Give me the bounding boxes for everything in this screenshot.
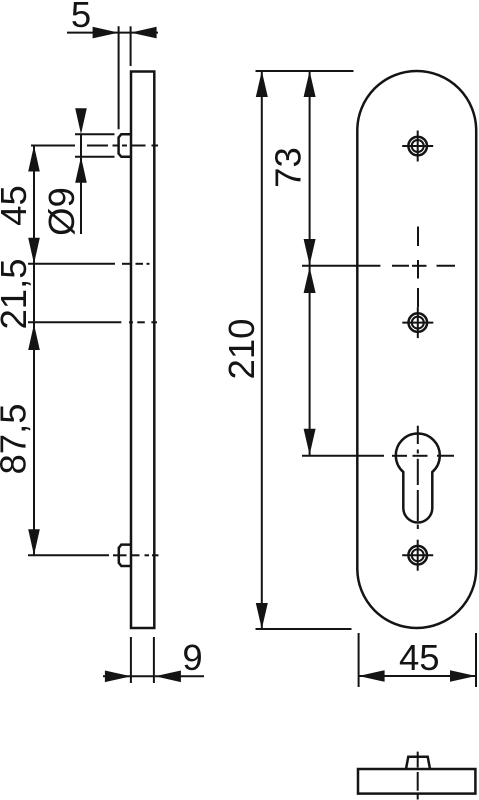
bottom 9 dimension line left part <box>103 675 154 677</box>
bottom 9 left extension line <box>130 637 132 683</box>
dimension 45 bottom: line <box>359 675 476 677</box>
svg-text:Ø9: Ø9 <box>41 187 82 236</box>
center line handle axis side view <box>28 263 150 265</box>
svg-text:9: 9 <box>182 637 202 678</box>
side view top screw boss <box>119 134 131 157</box>
dimension O9: top extension line <box>75 133 115 135</box>
dimension O9: tail line <box>80 157 82 234</box>
dimension 5: right arrow <box>131 27 157 39</box>
bottom view center line dashes <box>417 752 419 800</box>
svg-text:5: 5 <box>71 0 91 35</box>
dimension O9: bottom arrow <box>75 157 87 183</box>
center line middle screw side view <box>28 321 157 323</box>
left chain dimension line <box>33 146 35 556</box>
dimension 45: right arrow <box>450 670 476 682</box>
dimension 45: left arrow <box>359 670 385 682</box>
dimension 210: top arrow <box>256 71 268 97</box>
bottom screw hole <box>402 540 433 571</box>
dimension O9: top arrow <box>75 108 87 134</box>
side view plate body <box>131 72 154 629</box>
dimension 210: line <box>261 71 263 629</box>
chain arrow down at 555.3 <box>28 529 40 555</box>
svg-text:45: 45 <box>399 637 440 678</box>
svg-text:21,5: 21,5 <box>0 258 34 329</box>
dimension 72: bottom arrow <box>304 429 316 455</box>
dimension 72 (unlabeled): line <box>309 266 311 456</box>
middle screw hole <box>402 307 433 338</box>
dimension O9: line between extension lines <box>80 134 82 157</box>
dimension 73: top arrow <box>304 71 316 97</box>
center line bottom boss (87,5 reference) <box>28 554 159 556</box>
handle axis vertical dashes <box>417 227 419 308</box>
cylinder keyhole outline <box>396 433 440 522</box>
dimension 73: line <box>309 71 311 266</box>
handle axis horizontal dashes <box>392 265 455 267</box>
chain arrow up at 145.5 <box>28 146 40 172</box>
front view plate outline <box>357 71 476 628</box>
dimension 5: line <box>67 32 158 34</box>
dimension 72: top arrow <box>304 267 316 293</box>
top extension line front view <box>256 70 354 72</box>
bottom extension line front view <box>256 628 352 630</box>
cylinder axis horizontal solid part <box>302 455 384 457</box>
svg-text:73: 73 <box>268 147 309 188</box>
bottom 9 right arrow <box>155 671 181 683</box>
top screw hole <box>402 131 433 162</box>
dimension 5: left extension line <box>118 26 120 129</box>
dimension 73: bottom arrow <box>304 239 316 265</box>
center line top boss (45 dim reference) <box>31 145 158 147</box>
dimension 45: left extension line <box>358 633 360 687</box>
bottom 9 dimension line right tail <box>155 675 204 677</box>
bottom 9 right extension line <box>153 637 155 683</box>
chain arrow up at 322.3 <box>28 324 40 350</box>
dimension 45: right extension line <box>475 633 477 687</box>
svg-text:87,5: 87,5 <box>0 403 34 474</box>
cylinder axis vertical dashes <box>417 426 419 529</box>
dimension 210: bottom arrow <box>256 603 268 629</box>
handle axis horizontal line solid part <box>302 265 380 267</box>
bottom 9 left arrow <box>105 671 131 683</box>
side view bottom screw boss <box>119 545 131 566</box>
chain arrow down at 263.8 <box>28 238 40 264</box>
dimension O9: bottom extension line <box>75 156 115 158</box>
bottom view body <box>358 769 475 794</box>
svg-text:210: 210 <box>221 319 262 380</box>
bottom view boss bump <box>406 757 430 769</box>
cylinder axis horizontal dashes <box>392 455 454 457</box>
dimension 5: left arrow <box>93 27 119 39</box>
dimension 5: right extension line <box>130 26 132 66</box>
svg-text:45: 45 <box>0 185 34 226</box>
